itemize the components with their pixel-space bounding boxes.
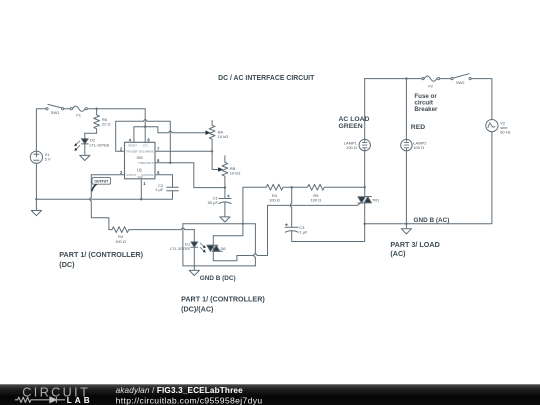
svg-text:VCC: VCC [143, 143, 149, 147]
LED D2 emission arrows [76, 141, 80, 149]
svg-text:SW2: SW2 [456, 80, 465, 85]
wire rail A (DC-side bottom rail) [183, 224, 256, 266]
node LAMP2 ground junction [405, 223, 407, 225]
svg-text:2: 2 [120, 146, 123, 151]
logo resistor-diode squiggle [15, 397, 65, 403]
svg-text:THRESHOLD: THRESHOLD [138, 161, 154, 165]
node R5/TR1 junction [364, 186, 366, 188]
svg-text:6: 6 [157, 158, 160, 163]
wire AC bottom rail to V2 [365, 132, 492, 224]
svg-text:TRIGGER: TRIGGER [126, 149, 138, 153]
potentiometer RA 10k [209, 121, 215, 152]
wire branch to RA wiper [145, 127, 206, 133]
voltage source V1 [30, 151, 42, 163]
net flag OUTPUT [92, 178, 111, 185]
node pin1 ground junction [140, 198, 142, 200]
node pin2/pin6 junction [169, 162, 171, 164]
svg-text:LTL-307EE: LTL-307EE [170, 246, 190, 251]
svg-text:F1: F1 [76, 113, 81, 118]
fuse F2 [422, 78, 424, 80]
svg-text:LTL-307EE: LTL-307EE [90, 142, 110, 147]
wire V1 bottom [35, 163, 37, 199]
svg-text:22 Ω: 22 Ω [102, 121, 111, 126]
wire pin 1 to ground rail [140, 179, 142, 199]
resistor R6 22ohm [85, 109, 100, 134]
node rail A / D6 junction [242, 223, 244, 225]
wire pin 2 to pin 6 net [116, 120, 171, 163]
node RB/C1 junction [224, 186, 226, 188]
svg-text:OUTPUT: OUTPUT [126, 173, 137, 177]
wire F1 to VCC rail [88, 108, 146, 110]
wire pin 5 to C2 [155, 175, 173, 188]
wire V1 top to SW1 [36, 109, 45, 151]
svg-text:1: 1 [143, 181, 146, 186]
svg-text:TR1: TR1 [372, 197, 380, 202]
svg-text:555: 555 [137, 156, 143, 160]
node TR1/MT1 rail junction [364, 223, 366, 225]
svg-text:(AC): (AC) [390, 249, 406, 258]
node V1 ground junction [35, 198, 37, 200]
svg-text:10 kΩ: 10 kΩ [230, 171, 241, 176]
svg-text:LAB: LAB [67, 396, 93, 405]
node VCC branch junction [144, 126, 146, 128]
svg-text:PART 1/ (CONTROLLER): PART 1/ (CONTROLLER) [59, 250, 143, 259]
wire pin 6 to RB bottom and C1 [155, 163, 225, 188]
fuse F1 [70, 108, 72, 110]
wire branch to pin 4 [134, 127, 145, 143]
node LAMP2 top junction [405, 77, 407, 79]
node VCC junction at R6 [95, 108, 97, 110]
svg-text:GREEN: GREEN [339, 123, 363, 130]
capacitor C2 1uF [167, 187, 179, 190]
wire pin 3 OUTPUT net to R3 [90, 175, 125, 230]
svg-text:4: 4 [129, 137, 132, 142]
svg-text:10 kΩ: 10 kΩ [218, 134, 229, 139]
wire pin 7 to RA/RB [155, 150, 212, 152]
triac TR1 [364, 151, 366, 197]
svg-text:D6: D6 [221, 246, 227, 251]
ground under C1 [220, 217, 230, 222]
svg-text:SW1: SW1 [51, 110, 60, 115]
resistor R4 100ohm [243, 184, 292, 190]
svg-text:(DC): (DC) [59, 260, 75, 269]
svg-text:OUTPUT: OUTPUT [94, 179, 109, 183]
svg-text:3: 3 [120, 170, 123, 175]
ground V1 [31, 199, 41, 216]
svg-text:GND B (AC): GND B (AC) [414, 217, 450, 224]
switch SW2 [451, 78, 453, 80]
wire F2 to SW2 [440, 78, 451, 80]
ground under D2 [80, 155, 90, 160]
svg-text:U1: U1 [137, 167, 143, 172]
svg-text:(DC)/(AC): (DC)/(AC) [181, 304, 214, 313]
ground GND B (DC) [189, 266, 199, 276]
svg-text:http://circuitlab.com/c955958e: http://circuitlab.com/c955958ej7dyu [116, 395, 263, 405]
resistor R3 100ohm [109, 227, 194, 233]
svg-text:1 µF: 1 µF [155, 187, 164, 192]
svg-text:akadylan / FIG3.3_ECELabThree: akadylan / FIG3.3_ECELabThree [116, 386, 244, 395]
wire R4 left / D6 top vertical [213, 187, 243, 236]
svg-text:RESET: RESET [128, 143, 137, 147]
voltage source V2 sine [486, 120, 498, 132]
svg-text:PART 3/ LOAD: PART 3/ LOAD [390, 240, 439, 249]
wire DC ground loop left side [182, 224, 184, 266]
svg-text:PART 1/ (CONTROLLER): PART 1/ (CONTROLLER) [181, 295, 265, 304]
wire D6 bottom to TR1 gate [213, 203, 361, 261]
wire DC ground rail [36, 191, 172, 200]
capacitor C3 1uF [285, 187, 298, 227]
svg-text:50 µF: 50 µF [208, 200, 219, 205]
svg-text:100 Ω: 100 Ω [115, 239, 126, 244]
potentiometer RB 10k [222, 156, 228, 188]
svg-text:100 Ω: 100 Ω [346, 145, 357, 150]
svg-text:RED: RED [411, 124, 425, 131]
svg-text:DISCHARGE: DISCHARGE [139, 149, 154, 153]
wire VCC vertical to pin 8 [144, 109, 146, 143]
lamp LAMP1 [364, 79, 366, 140]
wire AC top rail [365, 78, 422, 80]
LED D2 [84, 133, 86, 139]
node pin7 RA-RB junction [211, 150, 213, 152]
svg-text:GND B (DC): GND B (DC) [200, 275, 236, 282]
svg-text:100 Ω: 100 Ω [311, 198, 322, 203]
svg-text:100 Ω: 100 Ω [413, 145, 424, 150]
svg-text:DC / AC INTERFACE CIRCUIT: DC / AC INTERFACE CIRCUIT [218, 75, 315, 82]
svg-text:5 V: 5 V [45, 157, 51, 162]
svg-text:100 Ω: 100 Ω [269, 198, 280, 203]
node R4/R5/C3 junction [291, 186, 293, 188]
svg-text:8: 8 [147, 137, 150, 142]
RB wiper arrowhead [219, 168, 223, 171]
svg-text:7: 7 [157, 146, 160, 151]
svg-text:60 Hz: 60 Hz [500, 130, 510, 135]
opto-triac D6 [212, 236, 214, 261]
svg-text:CONTROL: CONTROL [141, 173, 154, 177]
svg-text:F2: F2 [428, 83, 433, 88]
wire DC ground horizontal [183, 265, 256, 267]
switch SW1 [46, 108, 48, 110]
D1 emission arrows toward D6 [200, 243, 204, 251]
resistor R5 100ohm [292, 184, 365, 190]
wire SW2 to V2 [471, 79, 492, 120]
capacitor C1 50uF polarized [219, 188, 231, 199]
wire SW1 to F1 [64, 108, 70, 110]
lamp LAMP2 [405, 79, 407, 140]
wire RB wiper [212, 151, 219, 169]
svg-text:5: 5 [157, 170, 160, 175]
LED D1 opto emitter [193, 230, 195, 242]
svg-text:Breaker: Breaker [414, 106, 438, 113]
ground GND B (AC) [401, 224, 411, 234]
op-amp U1 555 timer box [125, 142, 156, 179]
svg-text:1 µF: 1 µF [299, 230, 308, 235]
RA wiper arrowhead [206, 131, 209, 134]
